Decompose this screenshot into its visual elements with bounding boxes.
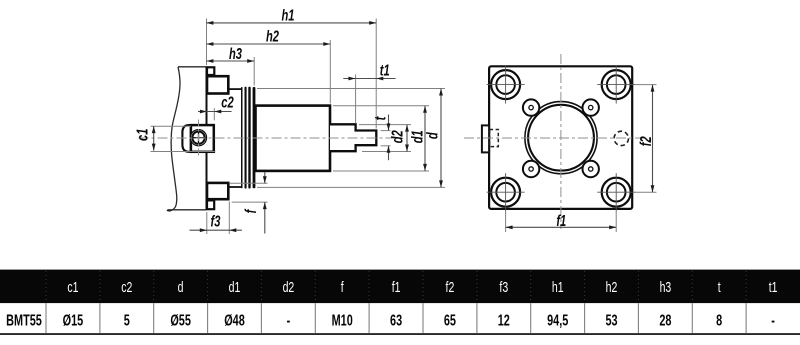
svg-text:BMT55: BMT55 [6, 311, 42, 329]
svg-text:d: d [178, 278, 184, 295]
svg-text:-: - [771, 311, 775, 329]
svg-text:94,5: 94,5 [547, 311, 568, 329]
svg-text:f: f [341, 278, 344, 295]
svg-text:d2: d2 [389, 130, 406, 143]
svg-text:f3: f3 [499, 278, 508, 295]
svg-text:f2: f2 [637, 136, 654, 146]
svg-text:h3: h3 [229, 45, 242, 62]
svg-text:d2: d2 [283, 278, 295, 295]
svg-text:65: 65 [444, 311, 456, 329]
svg-text:h2: h2 [266, 28, 279, 45]
svg-text:c1: c1 [67, 278, 78, 295]
svg-text:h1: h1 [552, 278, 564, 295]
svg-text:53: 53 [605, 311, 617, 329]
svg-text:f3: f3 [211, 213, 221, 230]
svg-text:h2: h2 [606, 278, 618, 295]
svg-text:t: t [718, 278, 721, 295]
svg-text:f1: f1 [556, 212, 566, 229]
svg-text:h3: h3 [660, 278, 672, 295]
svg-text:t1: t1 [769, 278, 778, 295]
svg-text:f1: f1 [392, 278, 401, 295]
svg-text:63: 63 [390, 311, 402, 329]
svg-text:t: t [372, 116, 389, 120]
svg-text:c1: c1 [134, 129, 151, 141]
svg-text:c2: c2 [221, 94, 234, 111]
svg-text:t1: t1 [380, 62, 390, 79]
svg-text:d1: d1 [229, 278, 241, 295]
svg-text:d: d [424, 132, 441, 139]
svg-text:M10: M10 [332, 311, 353, 329]
svg-text:Ø55: Ø55 [170, 311, 191, 329]
svg-text:8: 8 [716, 311, 722, 329]
svg-text:Ø15: Ø15 [63, 311, 84, 329]
svg-text:h1: h1 [281, 7, 294, 24]
svg-text:-: - [287, 311, 291, 329]
svg-text:28: 28 [659, 311, 671, 329]
svg-text:5: 5 [124, 311, 130, 329]
svg-text:12: 12 [498, 311, 510, 329]
svg-text:f2: f2 [446, 278, 455, 295]
svg-text:c2: c2 [121, 278, 132, 295]
svg-text:Ø48: Ø48 [224, 311, 245, 329]
